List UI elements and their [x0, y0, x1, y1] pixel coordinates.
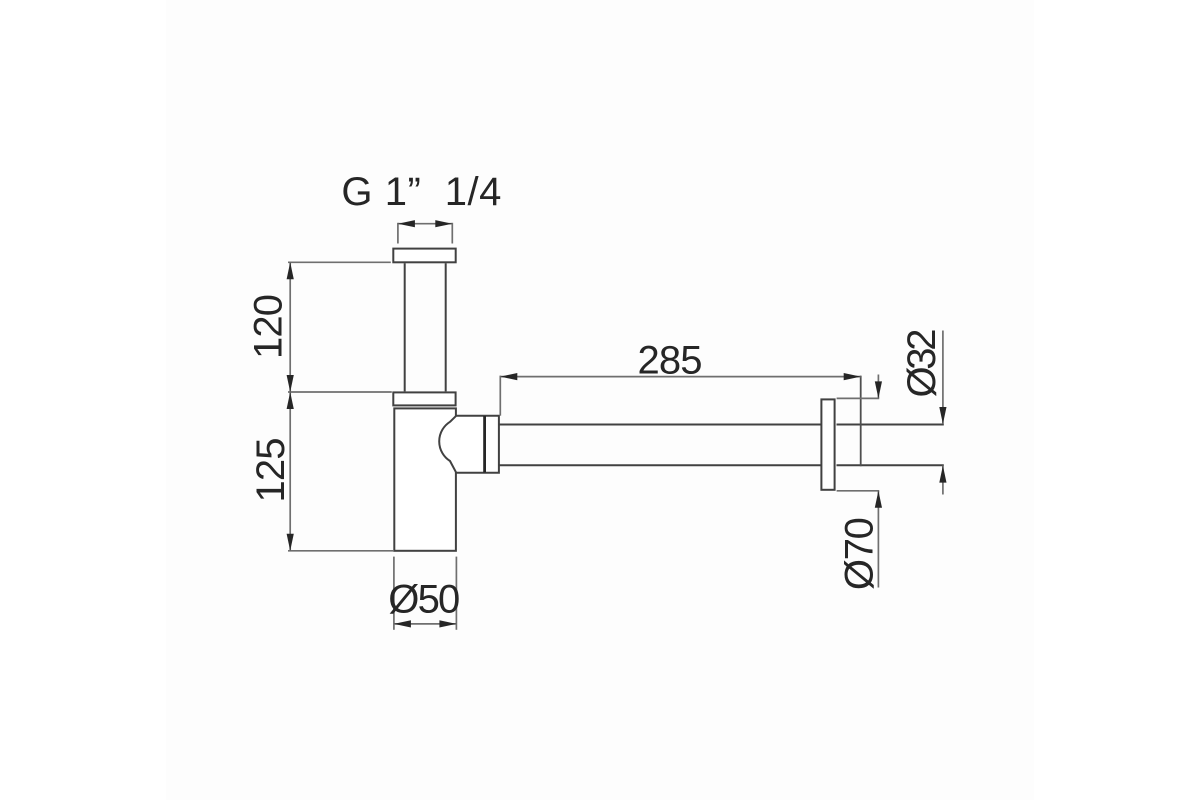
- dimension O50: [393, 557, 395, 630]
- svg-text:G 1” 1/4: G 1” 1/4: [341, 170, 501, 214]
- inlet top flange: [393, 249, 455, 263]
- svg-text:Ø50: Ø50: [388, 577, 460, 621]
- inlet vertical pipe: [404, 263, 406, 391]
- bottle body: [394, 408, 456, 550]
- svg-text:120: 120: [247, 294, 291, 359]
- svg-text:285: 285: [638, 338, 703, 382]
- svg-text:125: 125: [249, 438, 293, 503]
- body top flange: [393, 392, 455, 405]
- dimension 120: [289, 262, 291, 392]
- dimension 120 extension lines: [288, 262, 394, 551]
- nut left face thick line: [483, 416, 486, 473]
- pipe end cap and 285 right extension: [860, 376, 862, 467]
- svg-text:Ø70: Ø70: [838, 517, 882, 590]
- dimension 125: [289, 392, 291, 551]
- dimension O32: [942, 331, 944, 425]
- wall flange escutcheon: [821, 399, 834, 489]
- svg-text:Ø32: Ø32: [900, 329, 944, 398]
- horizontal outlet pipe top: [499, 424, 821, 426]
- elbow and nut: [439, 416, 499, 473]
- dimension O70: [837, 397, 880, 399]
- horizontal outlet pipe bottom: [499, 464, 821, 466]
- dimension 285: [500, 376, 860, 378]
- dimension arrow G thread: [398, 223, 452, 244]
